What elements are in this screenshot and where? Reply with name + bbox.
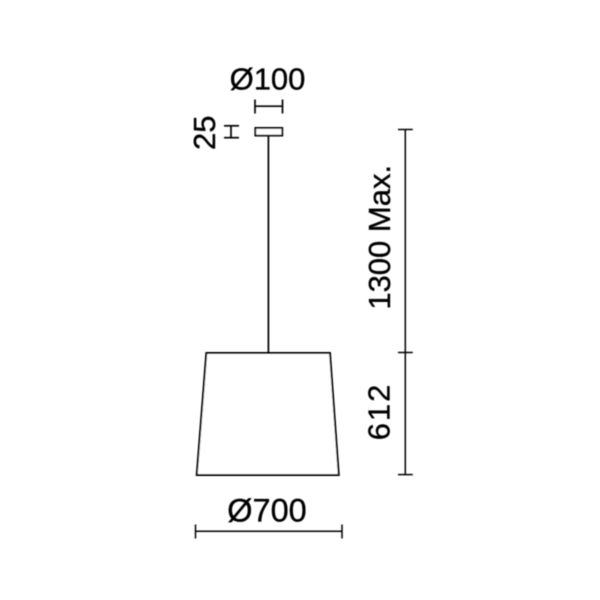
tick top of 25 dimension xyxy=(224,125,239,127)
tick right of Ø700 dimension xyxy=(341,525,343,539)
tick top of right dimension xyxy=(398,129,413,131)
svg-text:Ø700: Ø700 xyxy=(227,493,307,529)
tick right of Ø100 dimension xyxy=(282,100,284,114)
tick bottom of right dimension xyxy=(398,474,413,476)
svg-text:612: 612 xyxy=(362,383,397,440)
right dimension line 1300 Max. + 612 xyxy=(404,130,406,475)
tick middle of right dimension xyxy=(398,352,413,354)
shade (trapezoid lampshade) xyxy=(197,353,339,475)
svg-text:25: 25 xyxy=(187,116,222,150)
dimension bracket 25 vertical line xyxy=(230,126,232,138)
dimension line Ø100 xyxy=(255,105,283,107)
canopy (ceiling cap) xyxy=(255,128,282,136)
tick left of Ø100 dimension xyxy=(254,100,256,114)
bottom dimension line Ø700 xyxy=(196,530,343,532)
svg-text:1300 Max.: 1300 Max. xyxy=(362,165,397,310)
rod / suspension wire xyxy=(267,136,269,353)
tick left of Ø700 dimension xyxy=(195,525,197,539)
svg-text:Ø100: Ø100 xyxy=(230,62,306,97)
tick bottom of 25 dimension xyxy=(224,137,239,139)
